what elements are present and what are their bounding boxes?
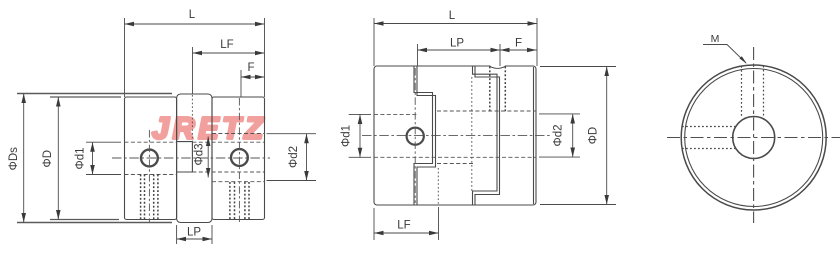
svg-text:Φd1: Φd1 — [75, 148, 87, 170]
right hub section face profile outer — [473, 66, 498, 205]
screw axis centerline left hub — [148, 130, 150, 222]
dimension Phid3 (arrows outside style) — [207, 137, 209, 178]
bore d2 hidden lines middle view — [437, 110, 536, 112]
vertical crosshair centerline — [753, 47, 755, 223]
right hub body — [212, 97, 265, 220]
thread hole dotted lines left hub — [141, 175, 158, 220]
dimension Phid1 (middle view) extension lines — [349, 114, 371, 157]
dimension PhiDs — [23, 94, 25, 223]
dimension Phid1 (middle view) — [359, 114, 361, 157]
top set screw hole dotted — [742, 66, 764, 117]
dimension PhiD extension lines — [50, 97, 121, 220]
svg-text:ΦD: ΦD — [588, 127, 600, 144]
bore d2 hidden lines — [212, 134, 265, 182]
hidden jaw edge dotted (left view) — [191, 95, 193, 142]
screw hole surface gap cover — [490, 65, 505, 68]
dimension Phid1 extension lines — [86, 142, 121, 174]
coupling body section outline — [374, 66, 536, 205]
outer circle — [681, 65, 826, 210]
horizontal crosshair centerline — [667, 137, 840, 139]
dimension Phid2 (left view) extension lines — [267, 134, 317, 181]
set screw circle section — [407, 128, 424, 145]
dimension L (left view) extension lines — [125, 18, 265, 97]
hidden face edge dotted — [471, 77, 473, 191]
dimension PhiD (middle view) extension lines — [540, 67, 616, 205]
center spacer body — [177, 94, 212, 223]
right hub screw hole dotted lines — [490, 67, 506, 112]
dimension F (middle view) — [500, 49, 537, 51]
bore circle — [733, 117, 775, 159]
dimension LF (middle view) extension lines — [374, 207, 439, 240]
horizontal centerline middle view — [362, 135, 550, 137]
dimension PhiD — [57, 97, 59, 220]
bore d1 hidden lines — [125, 142, 177, 174]
svg-text:Φd3: Φd3 — [194, 144, 206, 166]
screw axis centerline middle view — [414, 68, 416, 203]
svg-text:Φd2: Φd2 — [553, 125, 565, 147]
svg-text:F: F — [515, 38, 522, 50]
dimension LF (left view) — [193, 52, 265, 54]
svg-text:LF: LF — [220, 39, 233, 51]
right edge inner chamfer line — [533, 67, 535, 204]
svg-text:L: L — [189, 9, 196, 21]
left hub body — [125, 97, 177, 220]
svg-text:M: M — [711, 33, 720, 45]
inner rim circle — [685, 69, 823, 207]
screw hole surface arc — [490, 66, 506, 68]
bore d1 hidden lines middle view — [374, 114, 536, 157]
svg-text:Φd1: Φd1 — [341, 125, 353, 147]
dimension Phid2 (middle view) — [572, 114, 574, 157]
horizontal centerline left view — [112, 157, 270, 159]
svg-text:Φd2: Φd2 — [288, 146, 300, 168]
dimension L (left view) — [125, 23, 265, 25]
dimension LP (middle view) extension lines — [418, 44, 501, 66]
thread hole dotted lines right hub — [230, 182, 249, 220]
svg-text:LF: LF — [397, 220, 410, 232]
jaw slot notch in spacer — [177, 142, 193, 172]
left set screw hole dotted — [682, 127, 735, 149]
dimension LF (left view) extension line — [192, 47, 194, 94]
svg-text:LP: LP — [187, 227, 201, 239]
svg-text:ΦDs: ΦDs — [8, 147, 20, 170]
M label leader line — [703, 45, 746, 64]
svg-text:L: L — [449, 10, 456, 22]
dimension F (left view) extension line — [240, 70, 242, 97]
left hub section face profile outer — [414, 66, 433, 205]
dimension LP — [177, 238, 212, 240]
bore d3 spider hidden line — [437, 163, 473, 165]
set screw circle right hub — [231, 149, 248, 166]
svg-text:F: F — [247, 62, 254, 74]
svg-text:JRETZ: JRETZ — [152, 112, 267, 146]
dimension Phid2 (middle view) extension lines — [539, 114, 580, 157]
screw axis centerline right hub — [238, 98, 240, 222]
right hub section face profile inner (spider gap) — [475, 66, 500, 205]
dimension PhiDs extension lines — [17, 94, 172, 223]
dimension LP (middle view) — [418, 49, 501, 51]
M leader arrowhead — [740, 56, 747, 64]
set screw circle left hub — [141, 150, 158, 167]
dimension F (left view) — [241, 76, 265, 78]
bore d3 hidden lines — [192, 142, 264, 172]
dimension Phid1 — [92, 142, 94, 174]
dimension L (middle view) extension lines — [374, 18, 537, 66]
left hub section face profile inner (spider gap) — [417, 66, 436, 205]
dimension PhiD (middle view) — [606, 67, 608, 205]
dimension L (middle view) — [374, 23, 537, 25]
dimension LP extension lines — [177, 225, 212, 244]
svg-text:LP: LP — [450, 38, 464, 50]
dimension LF (middle view) — [374, 232, 439, 234]
hidden jaw tip edge dotted (middle view) — [437, 168, 439, 206]
svg-text:ΦD: ΦD — [42, 150, 54, 167]
dimension Phid2 (left view) — [306, 134, 308, 181]
